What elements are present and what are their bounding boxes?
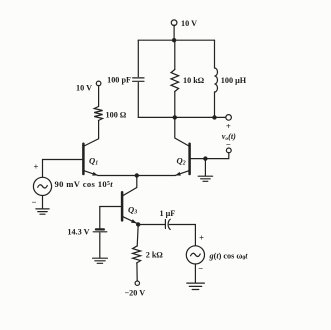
svg-text:g(t) cos ω0t: g(t) cos ω0t: [209, 252, 249, 262]
resistor R 100 Ohm: [94, 107, 102, 121]
wire: output - terminal to base node of Q2: [191, 153, 229, 159]
wire: supply terminal to top rail: [173, 25, 175, 40]
source V1: 90 mV cos 1e5 t (sinusoidal): [33, 177, 51, 195]
terminal: -20 V supply: [135, 281, 139, 285]
capacitor C 1 uF (coupling): [165, 219, 170, 229]
terminal: 10 V supply (left): [96, 81, 101, 86]
ground: below 14.3 V battery: [93, 258, 108, 263]
wire: left branch upper (to capacitor): [137, 40, 139, 76]
inductor L 100 uH: [215, 68, 218, 92]
transistor Q3 (NPN, faces right): [122, 192, 137, 225]
wire: bottom rail of tank to output terminal: [138, 116, 226, 118]
resistor R 2 kOhm: [133, 246, 141, 263]
capacitor C 100 pF: [133, 78, 144, 81]
terminal: output +: [226, 115, 232, 121]
wire: emitter node down to collector of Q3: [123, 176, 136, 196]
wire: battery to ground: [99, 233, 101, 258]
terminal: +10 V supply (top): [171, 20, 177, 26]
svg-text:10 V: 10 V: [181, 19, 197, 28]
wire: base lead of Q3: [100, 206, 121, 208]
wire: right branch lower (inductor to bottom rail): [214, 92, 216, 117]
junction: top rail node: [172, 38, 176, 42]
wire: right branch upper (to inductor): [214, 40, 216, 68]
svg-text:100 Ω: 100 Ω: [106, 111, 127, 120]
svg-text:100 μH: 100 μH: [221, 76, 247, 85]
wire: Q3 emitter node down to 2 kOhm resistor: [137, 225, 138, 247]
svg-text:14.3 V: 14.3 V: [67, 227, 89, 236]
svg-text:100 pF: 100 pF: [107, 75, 131, 84]
junction: emitter node of Q3: [136, 222, 140, 226]
svg-text:+: +: [226, 121, 231, 131]
wire: 100 Ohm resistor to collector of Q1: [84, 121, 98, 146]
svg-text:Q3: Q3: [128, 205, 137, 216]
source V2: g(t) cos w0 t (sinusoidal): [186, 246, 204, 264]
svg-text:−: −: [32, 197, 37, 207]
transistor Q1 (NPN, faces right): [83, 144, 98, 177]
junction: base node of Q2 / ground: [203, 156, 207, 160]
wire: base lead of Q1 from signal source: [43, 159, 83, 161]
ground: below right source: [187, 283, 205, 289]
battery V 14.3 V: [93, 229, 107, 231]
svg-text:−: −: [198, 264, 203, 274]
svg-text:−20 V: −20 V: [125, 288, 146, 297]
junction: bottom rail / inductor: [212, 115, 216, 119]
resistor R 10 kOhm: [171, 70, 179, 92]
ground: below left signal source: [36, 196, 49, 215]
terminal: output -: [226, 148, 231, 153]
svg-text:90 mV cos 105t: 90 mV cos 105t: [55, 179, 114, 189]
svg-text:1 μF: 1 μF: [160, 209, 176, 218]
wire: base of Q3 down to battery: [99, 207, 101, 229]
svg-text:+: +: [33, 161, 38, 171]
wire: middle branch upper (to resistor): [174, 40, 176, 69]
ground: at base of Q2: [198, 159, 212, 182]
wire: common emitter rail Q1-Q2: [98, 175, 176, 177]
wire: top rail of tank: [138, 39, 214, 41]
wire: middle branch lower (resistor to bottom rail): [174, 92, 176, 118]
svg-text:10 kΩ: 10 kΩ: [183, 76, 205, 85]
wire: left branch lower (capacitor to bottom rail): [137, 83, 139, 118]
wire: 2 kOhm resistor to -20 V terminal: [136, 263, 138, 281]
wire: Q3 emitter to coupling capacitor: [138, 224, 165, 226]
wire: source top lead: [42, 160, 44, 178]
wire: capacitor to right source: [169, 225, 195, 246]
svg-text:2 kΩ: 2 kΩ: [146, 250, 164, 259]
svg-text:Q2: Q2: [177, 156, 186, 167]
svg-text:+: +: [199, 233, 204, 243]
svg-text:Q1: Q1: [89, 156, 98, 167]
junction: emitter node to Q3 collector: [135, 173, 139, 177]
transistor Q2 (NPN, faces left): [175, 117, 190, 177]
wire: right source to ground: [194, 264, 196, 283]
junction: bottom rail / collector of Q2: [173, 115, 177, 119]
svg-text:10 V: 10 V: [76, 84, 92, 93]
wire: left supply terminal to 100 Ohm resistor: [98, 86, 100, 107]
